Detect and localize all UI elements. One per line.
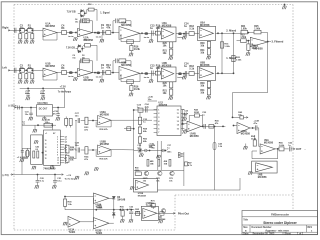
svg-text:Title: Title [243, 218, 248, 221]
svg-text:Sheet: Sheet [285, 232, 292, 235]
svg-text:MC4558: MC4558 [121, 24, 131, 27]
svg-text:74HC4040: 74HC4040 [43, 167, 56, 171]
svg-text:MC4558: MC4558 [200, 24, 210, 27]
svg-text:Right: Right [2, 27, 8, 30]
svg-text:10n: 10n [75, 145, 79, 147]
svg-text:(+15) In: (+15) In [9, 105, 18, 107]
svg-text:0.1u: 0.1u [57, 181, 62, 183]
svg-text:1.00k: 1.00k [224, 46, 230, 48]
svg-text:1.50k: 1.50k [240, 37, 246, 39]
svg-text:Date:: Date: [243, 232, 249, 235]
svg-text:XR2206: XR2206 [159, 104, 168, 107]
svg-text:+7.5V: +7.5V [60, 87, 66, 89]
svg-text:MC4558: MC4558 [258, 176, 267, 179]
svg-text:220R: 220R [194, 112, 199, 114]
svg-text:TL084: TL084 [69, 231, 76, 234]
svg-text:MC4558: MC4558 [45, 65, 55, 68]
svg-text:47k: 47k [106, 27, 111, 30]
svg-text:1 of 1: 1 of 1 [297, 233, 304, 235]
svg-text:47k: 47k [28, 67, 33, 70]
svg-text:3. Filtered: 3. Filtered [272, 41, 284, 44]
svg-text:12: 12 [45, 147, 47, 149]
svg-text:B7: B7 [53, 133, 55, 135]
svg-text:10.0k: 10.0k [134, 88, 141, 91]
svg-text:1N4148: 1N4148 [117, 198, 126, 201]
svg-text:September 05, 2003: September 05, 2003 [253, 232, 275, 235]
svg-text:Stereo coder Diplexer: Stereo coder Diplexer [263, 221, 297, 225]
svg-text:10B: 10B [150, 163, 154, 165]
svg-text:10u: 10u [20, 27, 25, 30]
svg-text:R36 47k: R36 47k [100, 157, 109, 160]
svg-text:15: 15 [45, 158, 47, 160]
svg-text:TL084: TL084 [96, 232, 103, 235]
svg-text:1.00k: 1.00k [236, 60, 242, 62]
svg-text:10n: 10n [75, 115, 79, 117]
svg-text:MC4558: MC4558 [84, 79, 94, 82]
svg-text:47k: 47k [28, 27, 33, 30]
svg-text:12: 12 [57, 163, 59, 165]
svg-text:tw-tw: tw-tw [68, 35, 74, 38]
svg-text:11: 11 [45, 144, 47, 146]
svg-text:10u: 10u [148, 99, 152, 101]
svg-text:MC4558: MC4558 [241, 133, 251, 136]
svg-text:Pilot Out: Pilot Out [178, 211, 189, 215]
svg-text:MC4558: MC4558 [45, 25, 55, 28]
svg-text:FMStereocoder: FMStereocoder [271, 214, 289, 217]
svg-text:1. Mixed: 1. Mixed [226, 57, 236, 60]
svg-text:1.00k: 1.00k [254, 29, 260, 31]
svg-text:100n: 100n [138, 152, 143, 154]
svg-text:10u: 10u [20, 67, 25, 70]
svg-text:5.1k: 5.1k [189, 68, 194, 71]
svg-text:100u: 100u [45, 122, 51, 124]
svg-text:7.5V GB: 7.5V GB [67, 11, 76, 13]
svg-text:D2: D2 [84, 21, 86, 23]
svg-text:MC4558: MC4558 [138, 195, 147, 198]
svg-text:MC4558: MC4558 [100, 114, 110, 117]
svg-text:14: 14 [45, 153, 47, 156]
svg-text:tw-tw: tw-tw [68, 75, 74, 78]
svg-text:REV: REV [308, 227, 313, 229]
svg-text:OUT: OUT [296, 148, 302, 151]
svg-text:MC4558: MC4558 [254, 47, 264, 50]
svg-text:100n: 100n [167, 152, 172, 154]
svg-text:200k: 200k [98, 207, 104, 209]
svg-text:R10: R10 [88, 4, 92, 6]
svg-text:7.5V GB: 7.5V GB [66, 48, 75, 50]
svg-text:2.2u: 2.2u [145, 106, 150, 108]
svg-text:Document Number: Document Number [252, 226, 272, 229]
svg-text:2. Mixed: 2. Mixed [226, 29, 236, 32]
svg-text:MC4558: MC4558 [162, 24, 172, 27]
svg-text:1.00k: 1.00k [241, 29, 247, 31]
svg-text:tw-tw: tw-tw [96, 35, 102, 38]
svg-text:10.0k: 10.0k [251, 139, 257, 141]
svg-text:1. Signal: 1. Signal [100, 12, 110, 14]
svg-text:0.1u: 0.1u [40, 181, 45, 183]
svg-text:tw-tw: tw-tw [96, 75, 102, 78]
svg-text:tw-tw: tw-tw [144, 36, 150, 39]
svg-text:47k: 47k [106, 67, 111, 70]
svg-text:MC4558: MC4558 [264, 142, 274, 145]
svg-text:13: 13 [45, 151, 47, 153]
svg-text:1.00k: 1.00k [279, 145, 285, 147]
svg-text:10: 10 [45, 140, 47, 142]
svg-text:MC4558: MC4558 [100, 143, 110, 146]
svg-text:U10 7810: U10 7810 [37, 103, 48, 105]
svg-text:MC4558: MC4558 [200, 64, 210, 67]
svg-text:47u: 47u [254, 122, 258, 125]
svg-text:10.0k: 10.0k [134, 48, 141, 51]
svg-text:5.1k: 5.1k [189, 28, 194, 31]
svg-text:MC4558: MC4558 [121, 64, 131, 67]
svg-text:MC4558: MC4558 [162, 64, 172, 67]
svg-text:Left: Left [2, 67, 7, 70]
svg-text:10B: 10B [164, 163, 168, 165]
svg-text:MC4558: MC4558 [190, 135, 200, 138]
svg-text:R36 47k: R36 47k [100, 128, 109, 131]
svg-text:tw-tw: tw-tw [144, 76, 150, 79]
svg-text:DC OUT: DC OUT [39, 108, 48, 110]
svg-text:→: → [304, 148, 307, 151]
svg-text:4: 4 [57, 141, 58, 144]
svg-text:Agpxma - mix mon: Agpxma - mix mon [265, 228, 289, 232]
svg-text:(+7.5): (+7.5) [3, 175, 9, 177]
svg-text:Size: Size [243, 227, 248, 229]
svg-text:Q10: Q10 [65, 163, 68, 165]
